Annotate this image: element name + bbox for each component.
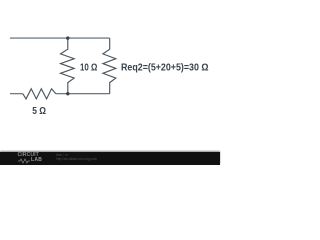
watermark logo word LAB xyxy=(31,157,42,163)
label Req2 annotation xyxy=(121,63,209,74)
label 10 Ohm xyxy=(80,63,98,74)
watermark logo resistor squiggle xyxy=(18,158,40,164)
watermark CircuitLab logo word CIRCUIT xyxy=(18,152,48,158)
watermark user text xyxy=(56,153,68,157)
watermark url text xyxy=(56,157,97,161)
node junction dot bottom xyxy=(66,92,69,95)
svg-text:5 Ω: 5 Ω xyxy=(32,106,46,117)
watermark bar xyxy=(0,152,220,166)
wire bottom rail right segment xyxy=(56,93,110,95)
resistor R2 10 Ohm vertical left xyxy=(61,38,75,94)
resistor R1 5 Ohm horizontal xyxy=(23,89,56,99)
label 5 Ohm xyxy=(32,106,46,117)
wire top rail xyxy=(10,37,110,39)
svg-text:10 Ω: 10 Ω xyxy=(80,63,98,74)
svg-text:Req2=(5+20+5)=30 Ω: Req2=(5+20+5)=30 Ω xyxy=(121,63,209,74)
resistor R3 10 Ohm vertical right xyxy=(103,38,116,94)
wire bottom rail left stub xyxy=(10,93,23,95)
node junction dot top xyxy=(66,36,69,39)
